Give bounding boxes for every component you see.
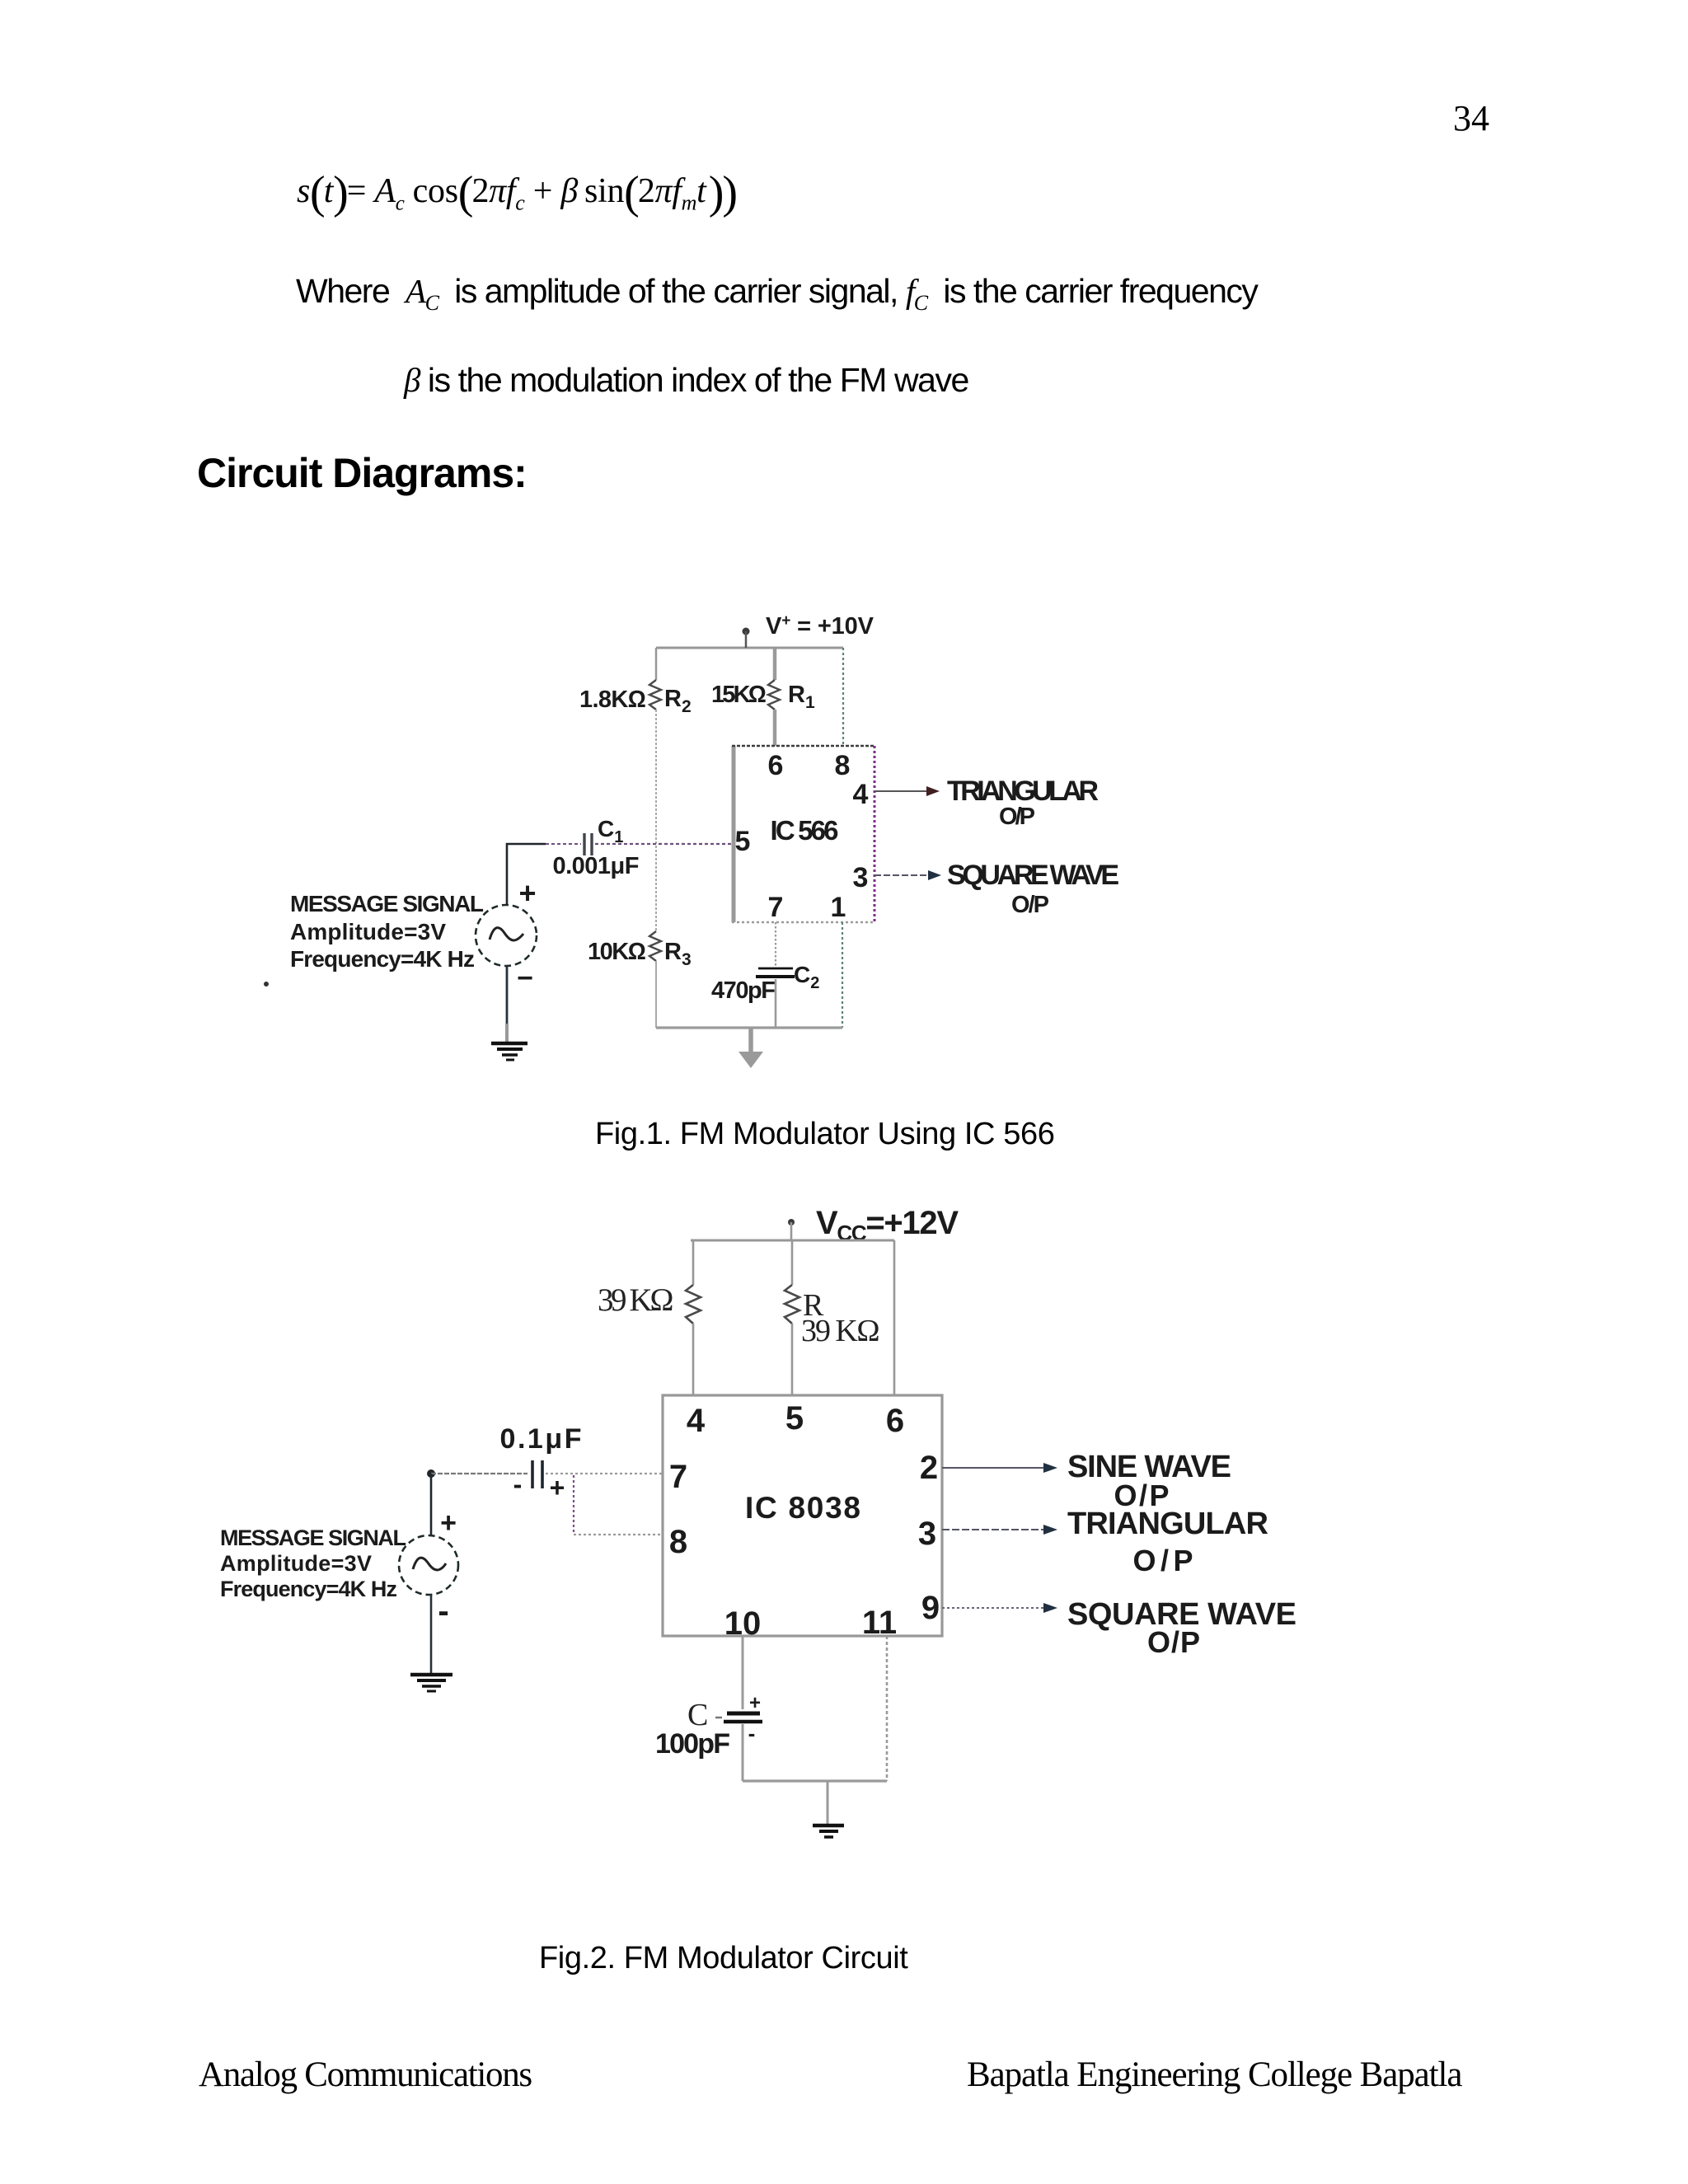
net label SQUARE WAVE O/P — [1067, 1597, 1296, 1659]
wire message source to C1 — [507, 844, 546, 904]
ground message source — [491, 1043, 527, 1060]
ground message source 2 — [410, 1675, 452, 1691]
svg-text:39 KΩ: 39 KΩ — [801, 1314, 880, 1348]
net label TRIANGULAR O/P — [1067, 1507, 1268, 1577]
ground arrow circuit common — [738, 1028, 763, 1068]
svg-text:MESSAGE SIGNAL: MESSAGE SIGNAL — [220, 1526, 406, 1550]
wire pin 11 to bottom rail 2 — [886, 1636, 889, 1781]
wire C1 to IC pin 5 — [595, 843, 732, 845]
svg-text:SQUARE WAVE: SQUARE WAVE — [947, 860, 1119, 891]
value label 10Kohm — [588, 939, 646, 965]
wire left resistor to IC pin 4 — [692, 1324, 695, 1395]
pin 5 — [785, 1400, 804, 1436]
pin 10 — [724, 1605, 762, 1642]
voltage source V2 message signal — [399, 1535, 458, 1595]
wire pin 10 to C4 — [742, 1636, 744, 1709]
svg-text:+: + — [518, 876, 536, 910]
svg-text:1.8KΩ: 1.8KΩ — [579, 687, 646, 713]
pin 4 — [853, 779, 869, 810]
svg-text:10KΩ: 10KΩ — [588, 939, 646, 965]
svg-text:Amplitude=3V: Amplitude=3V — [290, 919, 446, 944]
svg-text:4: 4 — [853, 779, 869, 810]
capacitor C4 100pF — [724, 1692, 762, 1746]
value label 39 Kohm — [598, 1282, 674, 1318]
svg-text:-: - — [748, 1721, 756, 1746]
caption figure 2 — [539, 1941, 907, 1976]
plus polarity label source — [440, 1507, 457, 1539]
ground circuit common 2 — [813, 1825, 844, 1837]
svg-text:TRIANGULAR: TRIANGULAR — [1067, 1507, 1268, 1541]
svg-text:O/P: O/P — [1147, 1625, 1200, 1659]
svg-text:O/P: O/P — [1011, 892, 1049, 918]
wire source to ground — [506, 966, 509, 1042]
value label V+ = +10V — [766, 612, 874, 640]
value label 39Kohm — [801, 1314, 880, 1348]
svg-text:+: + — [440, 1507, 457, 1539]
svg-text:O/P: O/P — [1133, 1544, 1193, 1577]
svg-text:-: - — [438, 1593, 448, 1629]
wire pin 7 to C2 — [775, 922, 776, 966]
value label 0.001uF — [553, 853, 640, 879]
resistor R2 — [649, 680, 661, 710]
pin 7 — [669, 1459, 687, 1495]
svg-text:0.001μF: 0.001μF — [553, 853, 640, 879]
svg-text:IC 8038: IC 8038 — [745, 1491, 860, 1525]
wire pin 9 square output — [942, 1603, 1057, 1613]
resistor R3 — [649, 931, 661, 961]
wire top rail to resistor R2 — [655, 648, 658, 680]
wire pin 2 sine output — [942, 1463, 1057, 1473]
wire rail to resistor R — [791, 1240, 794, 1285]
heading Circuit Diagrams — [197, 449, 527, 497]
svg-text:39 KΩ: 39 KΩ — [598, 1282, 674, 1318]
svg-text:TRIANGULAR: TRIANGULAR — [947, 776, 1099, 807]
caption figure 1 — [595, 1117, 1054, 1152]
node V+ supply dot — [743, 628, 750, 649]
op-amp U2 IC 8038 box — [663, 1395, 942, 1636]
wire source 2 to ground — [430, 1595, 433, 1673]
label message signal parameters — [220, 1526, 406, 1601]
wire R3 to bottom rail — [655, 961, 657, 1028]
value label 100pF — [655, 1728, 730, 1760]
wire rail to IC pin 6 — [893, 1240, 896, 1395]
svg-text:C: C — [687, 1698, 708, 1732]
label message signal parameters — [290, 891, 484, 972]
wire resistor R to IC pin 5 — [791, 1324, 794, 1395]
pin 7 — [768, 892, 784, 923]
power net V+ top rail wire — [656, 647, 843, 649]
svg-text:2: 2 — [920, 1450, 938, 1486]
value label 1.8Kohm — [579, 687, 646, 713]
resistor 39K left — [686, 1285, 701, 1324]
wire pin 3 triangular output — [942, 1525, 1057, 1535]
reference label R1 — [788, 682, 815, 712]
pin 1 — [831, 892, 846, 923]
wire pin 3 square wave output — [874, 870, 941, 880]
wire R1 to IC pin 6 — [773, 710, 777, 746]
polarity plus label — [550, 1473, 565, 1502]
pin 6 — [768, 750, 784, 781]
wire node to source — [430, 1474, 433, 1536]
svg-text:Frequency=4K Hz: Frequency=4K Hz — [290, 946, 475, 972]
value label 470pF — [711, 977, 776, 1004]
wire input node to C3 — [431, 1473, 527, 1474]
capacitor C3 0.1uF — [532, 1460, 542, 1488]
pin 3 — [918, 1516, 936, 1552]
svg-text:7: 7 — [768, 892, 784, 923]
footer left — [199, 2055, 532, 2095]
svg-text:100pF: 100pF — [655, 1728, 730, 1760]
reference label R2 — [664, 686, 692, 716]
pin 2 — [920, 1450, 938, 1486]
svg-text:470pF: 470pF — [711, 977, 776, 1004]
power rail Vcc wire — [691, 1240, 894, 1242]
reference label R3 — [664, 939, 692, 969]
pin 8 — [669, 1524, 687, 1560]
svg-text:6: 6 — [768, 750, 784, 781]
wire top rail to resistor R1 — [773, 648, 777, 680]
svg-text:15KΩ: 15KΩ — [711, 682, 767, 708]
pin 9 — [921, 1590, 940, 1626]
svg-text:R3: R3 — [664, 939, 692, 969]
minus polarity label — [517, 963, 533, 994]
capacitor C2 — [756, 968, 795, 977]
svg-text:IC 566: IC 566 — [771, 815, 839, 846]
svg-text:C1: C1 — [598, 816, 623, 846]
wire C2 to bottom rail — [775, 979, 777, 1028]
plus polarity label — [518, 876, 536, 910]
value label 0.1uF — [500, 1423, 582, 1455]
pin 6 — [886, 1403, 904, 1439]
svg-text:3: 3 — [918, 1516, 936, 1552]
svg-text:5: 5 — [735, 826, 751, 857]
pin 5 — [735, 826, 751, 857]
pin 4 — [687, 1403, 706, 1439]
value label Vcc=+12V — [816, 1205, 959, 1245]
svg-text:-: - — [513, 1469, 523, 1499]
bottom rail 2 wire — [743, 1779, 887, 1782]
wire top rail to IC pin 8 — [842, 648, 844, 746]
net label SQUARE WAVE O/P — [947, 860, 1119, 918]
stray period mark — [264, 982, 269, 987]
svg-text:V+ = +10V: V+ = +10V — [766, 612, 874, 640]
equation s(t)=Ac cos(2pi fc + beta sin(2pi fm t)) — [297, 166, 736, 219]
wire C4 to bottom rail 2 — [742, 1724, 744, 1781]
svg-text:7: 7 — [669, 1459, 687, 1495]
reference label C1 — [598, 816, 623, 846]
svg-text:+: + — [550, 1473, 565, 1502]
reference label C — [687, 1698, 722, 1732]
svg-text:Amplitude=3V: Amplitude=3V — [220, 1551, 372, 1576]
resistor R 39K middle — [785, 1285, 799, 1324]
svg-text:6: 6 — [886, 1403, 904, 1439]
wire rail to left resistor — [692, 1240, 695, 1285]
wire pin 4 triangular output — [874, 786, 940, 796]
minus polarity label source — [438, 1593, 448, 1629]
wire R2 to R3 — [655, 710, 657, 931]
svg-text:R1: R1 — [788, 682, 815, 712]
page number 34 — [1453, 97, 1489, 139]
net label TRIANGULAR O/P — [947, 776, 1099, 830]
reference label C2 — [794, 962, 819, 992]
wire branch down to pin 8 — [574, 1475, 663, 1535]
beta line — [404, 360, 968, 400]
node Vcc supply dot — [788, 1219, 795, 1240]
wire C3 to IC pin 7 — [546, 1473, 663, 1474]
footer right — [967, 2055, 1461, 2095]
capacitor C1 — [546, 833, 592, 855]
pin 8 — [835, 750, 851, 781]
resistor R1 — [768, 680, 780, 710]
svg-text:8: 8 — [669, 1524, 687, 1560]
value label 15Kohm — [711, 682, 767, 708]
svg-text:MESSAGE SIGNAL: MESSAGE SIGNAL — [290, 891, 484, 916]
voltage source V1 message signal — [476, 905, 537, 966]
svg-text:8: 8 — [835, 750, 851, 781]
polarity minus label — [513, 1469, 523, 1499]
svg-text:R2: R2 — [664, 686, 692, 716]
wire rail to ground 3 — [827, 1781, 829, 1824]
svg-text:C2: C2 — [794, 962, 819, 992]
svg-text:9: 9 — [921, 1590, 940, 1626]
net label SINEWAVE O/P — [1067, 1450, 1231, 1512]
svg-text:3: 3 — [853, 862, 869, 893]
svg-text:Frequency=4K Hz: Frequency=4K Hz — [220, 1577, 397, 1601]
svg-text:O/P: O/P — [999, 804, 1035, 830]
node input junction dot — [427, 1469, 435, 1478]
svg-text:1: 1 — [831, 892, 846, 923]
where line — [296, 271, 1257, 316]
pin 11 — [862, 1605, 897, 1641]
pin 3 — [853, 862, 869, 893]
svg-text:+: + — [749, 1692, 761, 1714]
bottom rail wire — [656, 1026, 842, 1029]
svg-text:11: 11 — [862, 1605, 897, 1641]
svg-text:0.1μF: 0.1μF — [500, 1423, 582, 1455]
svg-text:−: − — [517, 963, 533, 994]
svg-text:5: 5 — [785, 1400, 804, 1436]
wire pin 1 to bottom rail — [842, 922, 843, 1028]
op-amp U1 IC 566 box — [732, 746, 874, 922]
svg-text:4: 4 — [687, 1403, 706, 1439]
reference label R — [803, 1288, 824, 1323]
